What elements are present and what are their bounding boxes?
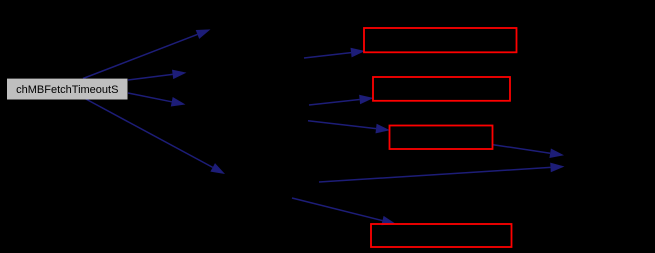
edge node2->B1 — [304, 48, 365, 58]
edge node3->B2 — [309, 95, 374, 105]
svg-text:chMBFetchTimeoutS: chMBFetchTimeoutS — [16, 84, 118, 96]
node box B1 (truncated call, red border) — [364, 28, 517, 52]
edge N1->node2 (top) — [83, 29, 211, 78]
edge N1->node3 — [128, 70, 187, 80]
edge node5->node6 — [319, 163, 565, 182]
node box B4 (truncated call, red border) — [371, 224, 512, 247]
node box B2 (truncated call, red border) — [373, 77, 510, 101]
node N1 chMBFetchTimeoutS (current function, grey) — [7, 79, 128, 100]
edge B3->node6 — [493, 145, 564, 158]
edge N1->node5 (bottom) — [84, 98, 225, 174]
node box B3 (truncated call, red border) — [390, 126, 493, 150]
edge node3->B3 — [308, 121, 390, 134]
edge node5->B4 — [292, 198, 396, 225]
edge N1->node4 — [128, 93, 186, 107]
